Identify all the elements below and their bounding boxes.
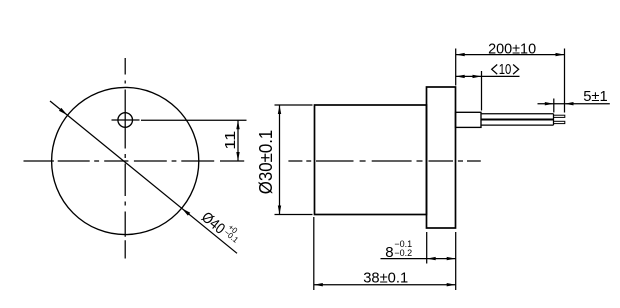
bare conductor upper xyxy=(554,115,565,117)
(10) text with angle brackets xyxy=(492,61,519,78)
wire insulation top edge xyxy=(481,113,554,115)
svg-text:200±10: 200±10 xyxy=(488,41,536,58)
5±1 dimension line with outside arrows and leader xyxy=(538,102,610,105)
38±0.1 text xyxy=(363,270,408,287)
dimension 11 line with arrows xyxy=(236,120,239,161)
Ø40 +0/-0.1 label xyxy=(198,206,245,250)
200±10 right extension line xyxy=(564,49,566,113)
Ø30±0.1 text xyxy=(255,130,276,195)
Ø30 dimension line with arrows xyxy=(278,105,281,215)
dimension 11 extension line xyxy=(141,119,247,121)
side view body rectangle xyxy=(315,105,427,215)
vertical centerline (front view) xyxy=(124,58,126,259)
svg-text:8: 8 xyxy=(385,244,393,261)
svg-text:38±0.1: 38±0.1 xyxy=(363,270,408,287)
5±1 text xyxy=(583,88,608,105)
Ø40 leader arrowhead lower-right xyxy=(182,208,191,215)
wire separation middle line xyxy=(481,119,554,121)
mounting hole xyxy=(118,113,133,128)
wire insulation bottom edge xyxy=(481,124,554,126)
svg-text:Ø30±0.1: Ø30±0.1 xyxy=(255,130,276,195)
200±10 text xyxy=(488,41,536,58)
8 dimension right extension line xyxy=(455,232,457,290)
horizontal centerline (front view) xyxy=(24,160,245,162)
dimension 11 text xyxy=(222,131,239,150)
Ø40 leader line xyxy=(50,101,237,253)
Ø30 dimension bottom extension line xyxy=(275,214,313,216)
hole horizontal centerline xyxy=(112,119,140,121)
38±0.1 dimension line with arrows xyxy=(314,283,456,286)
front view outer circle Ø40 xyxy=(52,87,199,234)
wire boot rectangle xyxy=(456,112,482,127)
Ø40 leader arrowhead upper-left xyxy=(59,108,68,115)
Ø30 dimension top extension line xyxy=(275,104,313,106)
8 -0.1/-0.2 text xyxy=(385,239,412,261)
5±1 left extension line xyxy=(553,99,555,113)
side view flange rectangle xyxy=(427,87,456,228)
svg-text:10: 10 xyxy=(499,61,512,78)
svg-text:−0.1: −0.1 xyxy=(222,228,240,245)
svg-text:−0.2: −0.2 xyxy=(394,248,412,258)
(10) dimension line with arrows and leader xyxy=(456,75,520,78)
(10) right extension line xyxy=(481,71,483,111)
horizontal centerline (side view) xyxy=(288,160,480,162)
8 -0.1/-0.2 dimension line with arrows and leader xyxy=(381,257,456,260)
8 dimension left extension line xyxy=(426,232,428,264)
200±10 dimension line with arrows xyxy=(456,53,565,56)
svg-text:11: 11 xyxy=(222,131,239,150)
bare conductor lower xyxy=(554,121,565,123)
svg-text:5±1: 5±1 xyxy=(583,88,608,105)
38±0.1 left extension line xyxy=(313,217,315,290)
wire insulation end cap xyxy=(553,114,555,125)
200±10 left extension line xyxy=(455,49,457,86)
